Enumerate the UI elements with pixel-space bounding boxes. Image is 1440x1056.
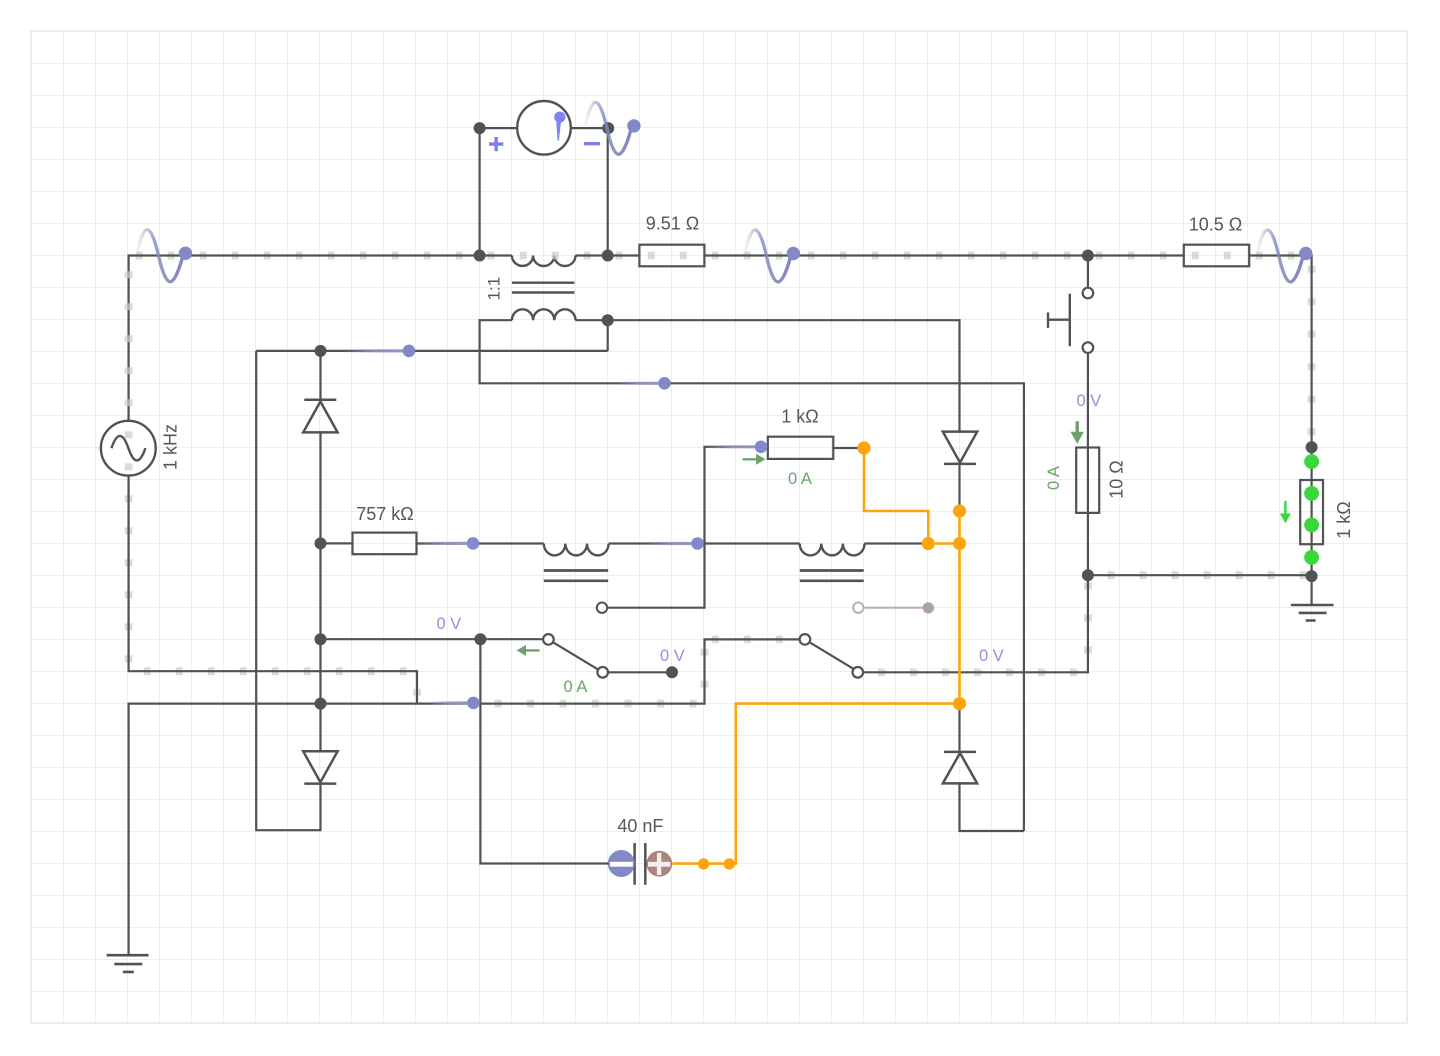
wire left box — [256, 351, 320, 830]
diode D3 — [943, 432, 977, 464]
probe wire node A — [341, 345, 415, 358]
svg-text:1:1: 1:1 — [485, 277, 504, 301]
svg-text:1 kΩ: 1 kΩ — [781, 407, 818, 427]
wire ammeter left leg — [480, 128, 518, 255]
wire row y351 — [256, 350, 608, 352]
svg-text:0 V: 0 V — [1077, 392, 1102, 410]
ground GND1 — [107, 955, 149, 972]
scope probe icon 2 — [585, 102, 640, 154]
probe wire node E — [705, 441, 767, 454]
wire ammeter right leg — [571, 128, 608, 255]
transformer T1 1:1 — [485, 256, 576, 321]
current arrow R4 — [743, 454, 766, 465]
svg-text:1 kΩ: 1 kΩ — [1334, 501, 1354, 538]
wire R4 right lead — [833, 447, 864, 449]
wire SW2 to R5 branch — [863, 575, 1088, 672]
current arrow R5 — [1071, 421, 1084, 444]
wire R3 left lead — [321, 542, 353, 544]
wire pushbutton chain — [1087, 256, 1089, 576]
probe wire node F — [429, 697, 480, 710]
svg-text:0 V: 0 V — [660, 647, 685, 665]
wire T1 secondary to right box — [480, 320, 1024, 831]
current arrow R6 — [1280, 501, 1291, 523]
svg-text:1 kHz: 1 kHz — [160, 424, 180, 470]
probe wire node B — [616, 377, 671, 390]
svg-text:10 Ω: 10 Ω — [1106, 460, 1126, 498]
junction pink dot — [923, 602, 934, 613]
switch SW1 — [543, 634, 608, 677]
ammeter U1 — [489, 101, 600, 155]
wire ground branch left — [129, 704, 417, 956]
svg-text:0 V: 0 V — [979, 647, 1004, 665]
svg-text:757 kΩ: 757 kΩ — [356, 504, 414, 524]
wire T2 stub to R4 — [607, 447, 761, 608]
svg-text:0 A: 0 A — [564, 678, 588, 696]
wire D4 top and bottom — [960, 704, 1024, 831]
svg-text:10.5 Ω: 10.5 Ω — [1189, 215, 1243, 235]
junction gray node dots — [315, 122, 1318, 710]
resistor R6 1 kohm — [1300, 480, 1354, 544]
current dots R6 — [1304, 454, 1319, 565]
wire diode chain x320 — [319, 351, 321, 752]
junction orange dots — [698, 441, 966, 869]
scope probe icon 4 — [1257, 230, 1312, 282]
resistor R5 10 ohm — [1076, 448, 1126, 513]
probe wire node C — [417, 537, 479, 550]
probe wire node D — [646, 537, 704, 550]
svg-text:0 V: 0 V — [437, 615, 462, 633]
resistor R3 757 kohm — [353, 504, 417, 554]
voltage source V1 1kHz — [101, 421, 180, 476]
resistor R4 1 kohm — [768, 407, 834, 459]
svg-text:0 A: 0 A — [1045, 466, 1063, 490]
wire selected orange path C — [673, 704, 960, 864]
wire D3 bottom — [958, 464, 960, 511]
wire selected orange path B — [928, 511, 959, 704]
svg-text:40 nF: 40 nF — [617, 816, 663, 836]
capacitor C1 40 nF — [608, 816, 672, 885]
transformer T3 — [800, 544, 865, 613]
diode D1 — [303, 400, 337, 433]
wire source bottom loop — [129, 271, 800, 703]
switch SW2 — [800, 634, 863, 677]
ground GND2 — [1291, 605, 1334, 621]
scope probe icon 3 — [745, 230, 800, 282]
wire T1 secondary right / diode D3 feed — [575, 320, 959, 431]
wire R6 through line to ground — [1310, 447, 1312, 605]
wire SW1 row — [321, 639, 673, 672]
wire row y543 — [417, 542, 929, 544]
svg-text:9.51 Ω: 9.51 Ω — [646, 214, 700, 234]
wire selected orange path A — [864, 448, 928, 544]
diode D2 — [303, 751, 337, 783]
current arrow SW1 — [517, 645, 540, 656]
wire capacitor left — [480, 639, 608, 863]
wire T3 stub (pink) — [864, 607, 929, 609]
diode D4 — [943, 752, 977, 784]
wire main top row + right drop — [129, 256, 1312, 448]
transformer T2 — [544, 544, 609, 613]
pushbutton SW3 — [1048, 288, 1093, 353]
resistor R1 9.51 ohm — [639, 214, 704, 267]
scope probe icon 1 — [137, 230, 192, 282]
resistor R2 10.5 ohm — [1184, 215, 1249, 267]
svg-text:0 A: 0 A — [788, 470, 812, 488]
wire row y575 — [1088, 571, 1312, 579]
